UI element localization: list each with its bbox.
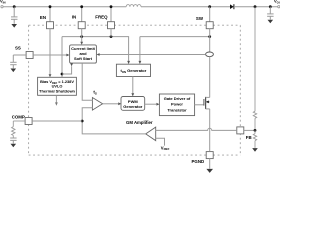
wire SW drop [209,7,211,22]
wire EN pin to bias box [49,29,51,75]
node junction FREQ bus [110,35,113,38]
node junction IN bus [80,35,83,38]
node junction IN rail [80,5,83,8]
svg-text:GM Amplifier: GM Amplifier [126,120,153,125]
svg-text:Power: Power [171,102,183,107]
resistor R1 feedback top [253,7,256,131]
node junction EN rail [49,5,52,8]
wire bias feed from bus [61,37,63,78]
svg-text:EN: EN [40,15,46,20]
svg-text:FREQ: FREQ [95,15,108,20]
resistor R compensation COMP external [12,121,26,138]
inductor L1 [126,5,141,7]
wire FREQ drop [110,7,112,22]
node junction FREQ rail [110,5,113,8]
node VIN terminal [0,0,5,8]
node junction bias top [61,73,64,76]
arrow into current limit box top [80,42,83,45]
wire GM output to COMP node [82,121,146,134]
arrow bias box to ground [55,95,58,106]
wire IN pin to current limit box [81,29,83,42]
svg-text:SS: SS [15,46,21,51]
node junction COMP [81,120,84,123]
arrow into tON box right feed [139,61,142,64]
node junction FB divider [254,5,257,8]
wire IN drop [81,7,83,22]
current sense ellipse on SW line [206,52,214,57]
wire PGND to ground [209,159,211,169]
wire SW pin down [209,29,211,52]
block gate driver [159,94,194,116]
svg-text:Gate Driver of: Gate Driver of [164,96,191,101]
ground input cap [11,24,17,28]
pin SW [196,16,213,29]
wire current limit box to comparator top input [82,63,92,100]
ground PGND [206,169,213,173]
IC boundary dashed box [29,25,241,155]
wire branch to current limit box bottom [62,66,72,74]
pin IN [72,14,85,28]
wire comparator output to PWM [103,103,118,105]
svg-text:IN: IN [72,14,76,19]
svg-text:Soft Start: Soft Start [74,56,93,61]
arrow into tON box left feed [127,61,130,64]
wire FB pin to divider [244,129,255,131]
pin FREQ [95,15,114,29]
wire top rail VIN to inductor [3,6,126,8]
capacitor SS external [10,55,26,68]
svg-text:Thermal Shutdown: Thermal Shutdown [39,88,76,93]
block bias uvlo thermal shutdown [38,77,77,95]
wire internal bus segment 2 [140,36,210,38]
wire COMP pin to node [32,120,82,122]
wire GM top input from FB with hop over SW line [156,128,237,130]
arrow into bias box top [49,74,52,77]
block tON generator [116,64,150,76]
pin COMP [12,114,32,124]
wire PWM to gate driver [145,103,157,105]
transistor Q1 power MOSFET [195,97,210,109]
wire GM bottom input to VREF [156,138,165,145]
block PWM generator [121,97,145,111]
wire current sense to current limit box [99,54,205,56]
svg-text:SW: SW [196,16,204,21]
svg-text:FB: FB [246,135,252,140]
svg-text:Generator: Generator [123,104,143,109]
GM amplifier U3 [126,120,156,140]
ground COMP RC [11,144,17,148]
capacitor COMP external [10,138,16,144]
capacitor output COUT [267,7,274,20]
node junction input cap [13,5,16,8]
svg-text:PGND: PGND [192,159,205,164]
wire tON to PWM [132,77,134,94]
ground SS cap [11,69,17,73]
wire bus2 drop to tON [139,37,141,62]
comparator U2 [92,89,102,110]
capacitor input CIN [11,7,18,24]
arrow into gate driver box left [156,103,159,106]
arrow into current limit box left [66,54,69,57]
node junction FB [254,129,257,132]
svg-text:Transistor: Transistor [167,107,187,112]
wire SW line to MOSFET drain [209,57,211,98]
node junction SW [208,5,211,8]
node junction SW bus [208,35,211,38]
resistor R2 feedback bottom [253,130,256,148]
wire EN drop [49,7,51,22]
pin PGND [192,152,214,164]
wire inductor to diode [141,6,230,8]
pin FB [237,127,252,140]
pin SS [15,46,33,59]
ground output cap [268,20,274,24]
wire MOSFET source to PGND [209,109,211,152]
wire diode to VOUT [234,6,278,8]
node VOUT terminal [274,0,283,8]
wire SS pin to current limit box [33,54,67,56]
wire COMP node to comparator bottom input [82,108,92,121]
arrow up into current limit box bottom [70,63,73,66]
arrow into PWM box top [131,93,134,96]
svg-text:COMP: COMP [12,114,25,119]
arrow into PWM box left [118,102,121,105]
node junction output cap [269,5,272,8]
ground FB divider [252,148,258,152]
pin EN [40,15,54,29]
block current limit and soft start [70,45,97,63]
wire FREQ pin to bus [110,29,112,37]
wire internal bus segment 1 [62,37,129,62]
arrow into current limit box right [97,53,100,56]
diode D1 [230,4,234,9]
